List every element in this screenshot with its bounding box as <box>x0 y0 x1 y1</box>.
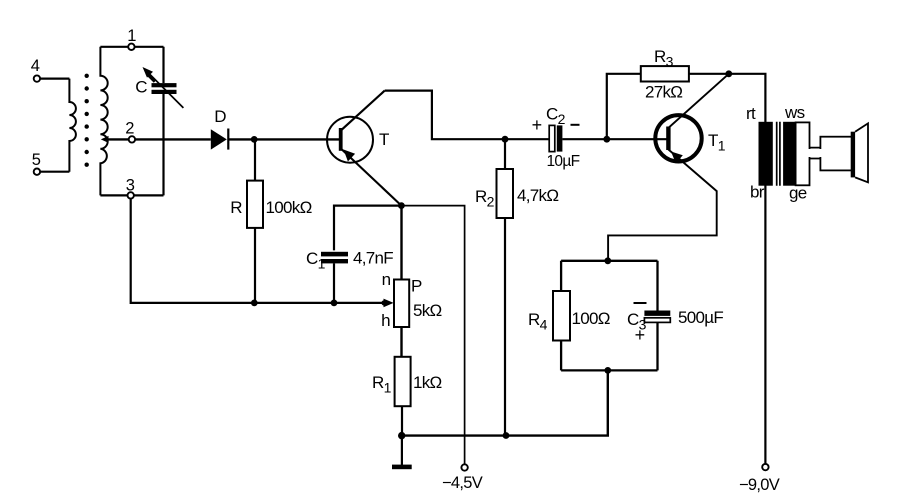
svg-text:5kΩ: 5kΩ <box>413 301 442 320</box>
resistor R <box>230 139 311 303</box>
speaker <box>796 122 868 185</box>
node junction <box>603 136 610 143</box>
variable capacitor C <box>135 47 183 196</box>
wire R3 to transformer <box>689 74 766 464</box>
wire bottom rail <box>402 370 608 435</box>
wire R4 C3 loop <box>561 261 657 371</box>
wire <box>100 194 163 196</box>
node junction <box>251 300 258 307</box>
wire tap to diode <box>101 136 211 143</box>
svg-text:h: h <box>381 311 390 330</box>
svg-text:4: 4 <box>31 57 40 75</box>
svg-text:10µF: 10µF <box>547 153 580 170</box>
wire <box>100 46 163 48</box>
inductor primary winding <box>69 79 76 172</box>
wire diode to base of T <box>228 138 339 140</box>
svg-text:P: P <box>411 277 422 296</box>
svg-text:T: T <box>379 130 389 149</box>
resistor R1 <box>372 357 442 436</box>
power -4,5V <box>401 206 482 492</box>
capacitor C3 <box>627 303 723 345</box>
resistor R3 <box>641 47 689 102</box>
svg-text:D: D <box>214 107 226 126</box>
svg-text:100Ω: 100Ω <box>572 309 610 328</box>
wire <box>40 77 69 79</box>
svg-text:1: 1 <box>127 27 136 45</box>
svg-text:4,7kΩ: 4,7kΩ <box>517 186 558 205</box>
node junction <box>251 136 258 143</box>
svg-text:C: C <box>135 78 147 97</box>
node junction <box>398 432 405 439</box>
svg-text:27kΩ: 27kΩ <box>645 83 682 102</box>
capacitor C1 <box>306 206 401 303</box>
terminal 1 <box>127 27 136 50</box>
svg-text:−9,0V: −9,0V <box>739 476 780 494</box>
wire terminal 3 to wiper of P <box>131 199 394 308</box>
svg-text:+: + <box>532 115 542 135</box>
svg-text:−4,5V: −4,5V <box>442 474 483 492</box>
inductor secondary winding <box>100 47 107 196</box>
wire <box>40 171 69 173</box>
terminal 3 <box>126 177 135 199</box>
terminal 4 <box>31 57 40 82</box>
capacitor C2 <box>532 105 580 171</box>
svg-text:ge: ge <box>789 184 807 203</box>
node junction <box>604 367 611 374</box>
transistor T <box>327 91 401 206</box>
wire collector of T to main node <box>385 91 550 140</box>
svg-text:500µF: 500µF <box>678 308 723 327</box>
svg-text:rt: rt <box>746 104 756 123</box>
node junction <box>502 136 509 143</box>
wire C2 to node <box>562 138 666 140</box>
diode D <box>211 107 229 150</box>
svg-text:5: 5 <box>32 151 41 169</box>
svg-text:n: n <box>382 270 391 289</box>
wire node up to R3 <box>607 74 641 139</box>
svg-text:4,7nF: 4,7nF <box>353 249 393 268</box>
terminal 2 <box>125 120 135 143</box>
svg-text:100kΩ: 100kΩ <box>266 198 312 217</box>
transistor T1 <box>608 74 729 261</box>
node junction <box>503 432 510 439</box>
terminal 5 <box>32 151 41 175</box>
node junction <box>604 257 611 264</box>
resistor R2 <box>475 139 558 435</box>
transformer core <box>85 74 89 167</box>
power -9,0V <box>739 464 780 494</box>
svg-text:1kΩ: 1kΩ <box>413 373 442 392</box>
potentiometer P <box>381 206 441 357</box>
output transformer <box>746 103 807 203</box>
node junction <box>331 300 338 307</box>
resistor R4 <box>528 291 610 341</box>
svg-text:br: br <box>750 183 765 202</box>
svg-text:R: R <box>230 198 242 217</box>
svg-text:+: + <box>635 325 645 345</box>
ground <box>392 436 412 470</box>
svg-text:ws: ws <box>784 103 805 122</box>
node junction <box>725 70 732 77</box>
node junction emitter of T <box>398 202 405 209</box>
svg-text:2: 2 <box>125 120 134 138</box>
svg-text:3: 3 <box>126 177 135 195</box>
